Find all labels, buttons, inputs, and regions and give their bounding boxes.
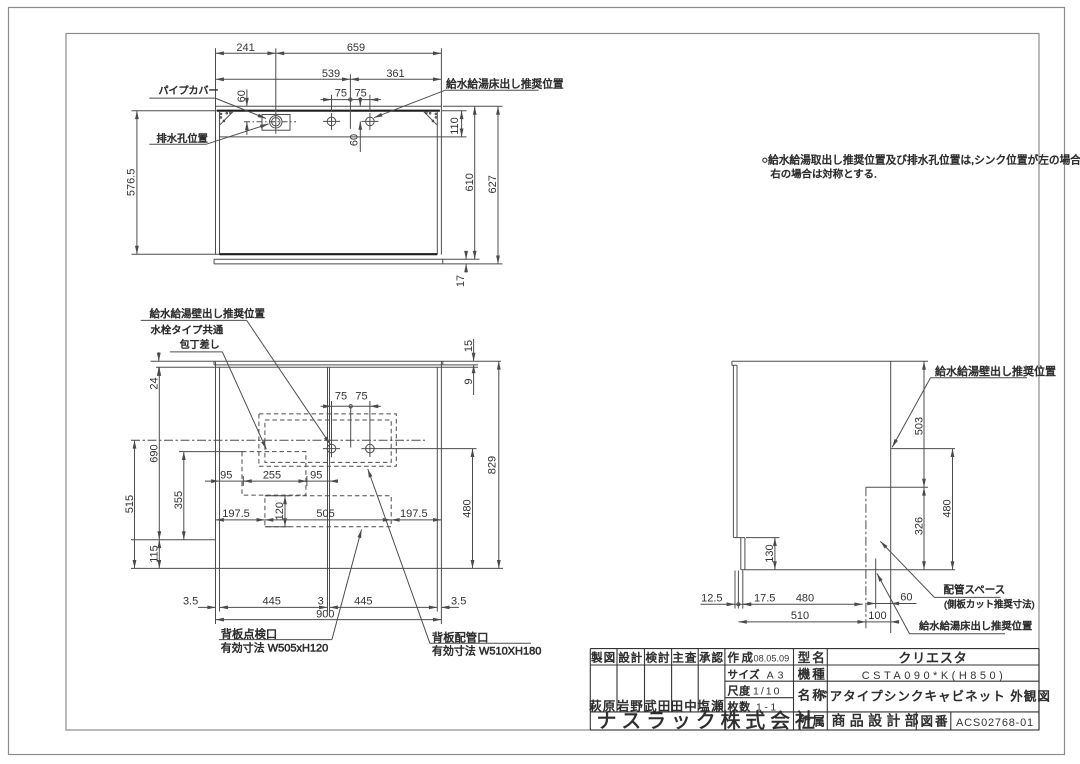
svg-text:包丁差し: 包丁差し bbox=[180, 338, 220, 351]
svg-text:水栓タイプ共通: 水栓タイプ共通 bbox=[151, 324, 224, 337]
svg-text:17.5: 17.5 bbox=[754, 593, 775, 605]
svg-text:24: 24 bbox=[148, 377, 160, 389]
svg-text:図番: 図番 bbox=[921, 715, 950, 729]
svg-text:361: 361 bbox=[386, 68, 404, 80]
svg-text:CSTA090*K(H850): CSTA090*K(H850) bbox=[862, 670, 1007, 682]
svg-text:197.5: 197.5 bbox=[222, 508, 250, 520]
svg-text:12.5: 12.5 bbox=[701, 593, 722, 605]
svg-text:商品設計部: 商品設計部 bbox=[832, 713, 924, 729]
svg-text:08.05.09: 08.05.09 bbox=[754, 654, 790, 664]
svg-text:445: 445 bbox=[263, 596, 281, 608]
svg-text:検討: 検討 bbox=[646, 651, 671, 665]
svg-text:505: 505 bbox=[316, 508, 334, 520]
svg-text:製図: 製図 bbox=[591, 651, 616, 665]
svg-text:480: 480 bbox=[462, 499, 474, 517]
svg-text:パイプカバー: パイプカバー bbox=[159, 85, 219, 97]
svg-text:75: 75 bbox=[355, 87, 367, 99]
svg-text:給水給湯壁出し推奨位置: 給水給湯壁出し推奨位置 bbox=[935, 364, 1056, 378]
svg-text:1/10: 1/10 bbox=[753, 686, 781, 698]
svg-text:サイズ: サイズ bbox=[728, 668, 761, 681]
svg-text:480: 480 bbox=[796, 593, 814, 605]
svg-text:110: 110 bbox=[449, 117, 461, 135]
svg-text:17: 17 bbox=[455, 275, 467, 287]
svg-text:9: 9 bbox=[463, 378, 475, 384]
svg-text:120: 120 bbox=[274, 502, 286, 520]
svg-text:(側板カット推奨寸法): (側板カット推奨寸法) bbox=[944, 599, 1035, 610]
svg-text:326: 326 bbox=[913, 517, 925, 535]
svg-text:241: 241 bbox=[236, 42, 254, 54]
svg-text:659: 659 bbox=[347, 42, 365, 54]
svg-text:610: 610 bbox=[464, 173, 476, 191]
svg-text:539: 539 bbox=[322, 68, 340, 80]
svg-text:510: 510 bbox=[791, 610, 809, 622]
svg-text:829: 829 bbox=[487, 456, 499, 474]
svg-text:503: 503 bbox=[913, 417, 925, 435]
svg-text:ナスラック株式会社: ナスラック株式会社 bbox=[597, 710, 820, 733]
svg-text:背板点検口: 背板点検口 bbox=[221, 627, 278, 641]
svg-text:627: 627 bbox=[487, 175, 499, 193]
svg-text:有効寸法 W510XH180: 有効寸法 W510XH180 bbox=[432, 644, 541, 658]
svg-text:A3: A3 bbox=[767, 670, 788, 682]
svg-text:3.5: 3.5 bbox=[183, 596, 198, 608]
svg-text:配管スペース: 配管スペース bbox=[944, 583, 1006, 596]
svg-text:給水給湯床出し推奨位置: 給水給湯床出し推奨位置 bbox=[919, 620, 1032, 633]
svg-text:15: 15 bbox=[463, 340, 475, 352]
svg-text:ドアタイプシンクキャビネット 外観図: ドアタイプシンクキャビネット 外観図 bbox=[816, 690, 1051, 704]
svg-text:ACS02768-01: ACS02768-01 bbox=[956, 717, 1034, 729]
svg-text:60: 60 bbox=[236, 90, 248, 102]
svg-text:承認: 承認 bbox=[699, 651, 724, 665]
svg-text:95: 95 bbox=[220, 469, 232, 481]
svg-text:197.5: 197.5 bbox=[400, 508, 428, 520]
svg-text:作成: 作成 bbox=[728, 652, 756, 665]
svg-text:給水給湯床出し推奨位置: 給水給湯床出し推奨位置 bbox=[446, 78, 564, 91]
svg-text:75: 75 bbox=[335, 87, 347, 99]
svg-text:排水孔位置: 排水孔位置 bbox=[157, 132, 208, 145]
svg-text:尺度: 尺度 bbox=[728, 684, 751, 698]
svg-text:130: 130 bbox=[764, 544, 776, 562]
svg-text:75: 75 bbox=[355, 391, 367, 403]
svg-text:115: 115 bbox=[149, 545, 161, 563]
svg-text:型名: 型名 bbox=[798, 650, 827, 665]
svg-text:900: 900 bbox=[316, 608, 334, 620]
svg-text:3.5: 3.5 bbox=[451, 596, 466, 608]
svg-text:主査: 主査 bbox=[672, 651, 697, 665]
svg-text:60: 60 bbox=[900, 592, 912, 604]
svg-text:背板配管口: 背板配管口 bbox=[432, 631, 489, 645]
svg-text:690: 690 bbox=[149, 444, 161, 462]
svg-text:95: 95 bbox=[310, 469, 322, 481]
svg-text:576.5: 576.5 bbox=[126, 169, 138, 197]
svg-text:クリエスタ: クリエスタ bbox=[898, 651, 967, 666]
svg-text:480: 480 bbox=[942, 499, 954, 517]
svg-text:給水給湯壁出し推奨位置: 給水給湯壁出し推奨位置 bbox=[150, 307, 266, 320]
svg-text:有効寸法 W505xH120: 有効寸法 W505xH120 bbox=[221, 641, 329, 655]
svg-text:515: 515 bbox=[124, 495, 136, 513]
svg-text:255: 255 bbox=[263, 469, 281, 481]
svg-text:60: 60 bbox=[348, 134, 360, 146]
svg-text:右の場合は対称とする.: 右の場合は対称とする. bbox=[770, 167, 876, 180]
svg-text:設計: 設計 bbox=[618, 651, 643, 665]
svg-text:機種: 機種 bbox=[798, 666, 827, 681]
svg-text:○給水給湯取出し推奨位置及び排水孔位置は,シンク位置が左の場: ○給水給湯取出し推奨位置及び排水孔位置は,シンク位置が左の場合を示し, bbox=[762, 153, 1080, 166]
svg-text:445: 445 bbox=[354, 596, 372, 608]
svg-text:355: 355 bbox=[173, 491, 185, 509]
svg-text:75: 75 bbox=[335, 391, 347, 403]
svg-text:100: 100 bbox=[868, 610, 886, 622]
svg-text:3: 3 bbox=[318, 596, 324, 608]
